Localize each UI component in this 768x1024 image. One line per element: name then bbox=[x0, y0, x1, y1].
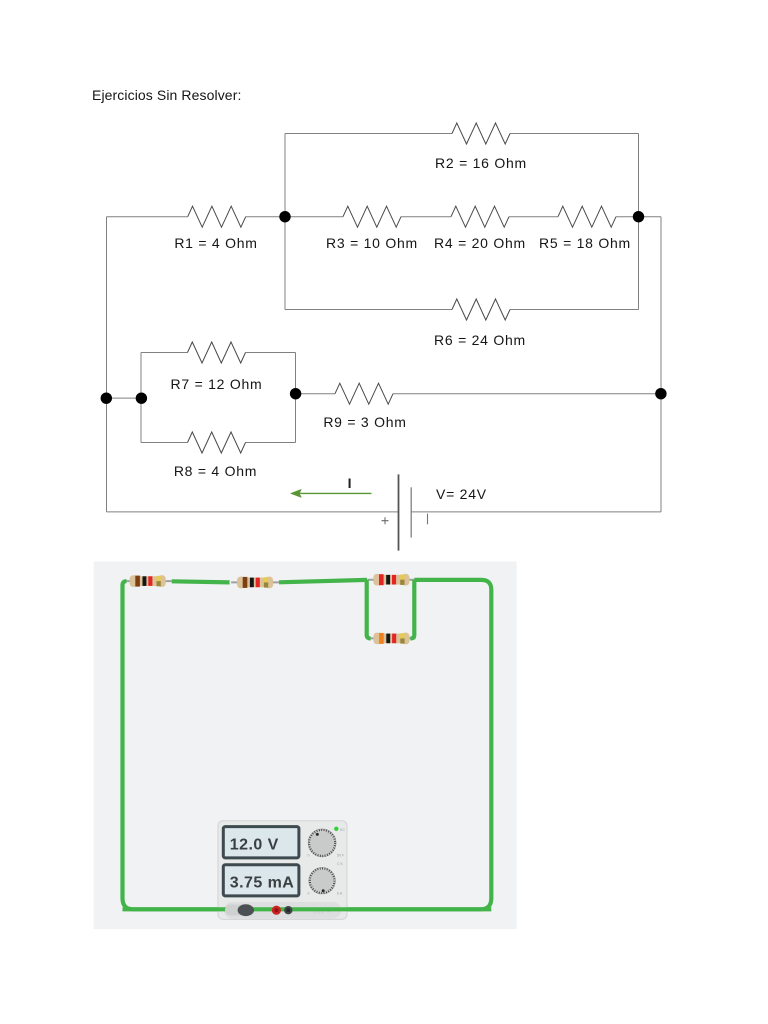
svg-text:0: 0 bbox=[308, 854, 310, 858]
svg-text:12.0 V: 12.0 V bbox=[230, 836, 279, 853]
svg-text:0: 0 bbox=[308, 892, 310, 896]
svg-text:3.75 mA: 3.75 mA bbox=[230, 875, 295, 892]
svg-text:C K: C K bbox=[337, 862, 344, 866]
svg-text:50 F: 50 F bbox=[337, 854, 344, 858]
svg-text:KC: KC bbox=[340, 828, 345, 832]
svg-text:6 A: 6 A bbox=[337, 892, 343, 896]
